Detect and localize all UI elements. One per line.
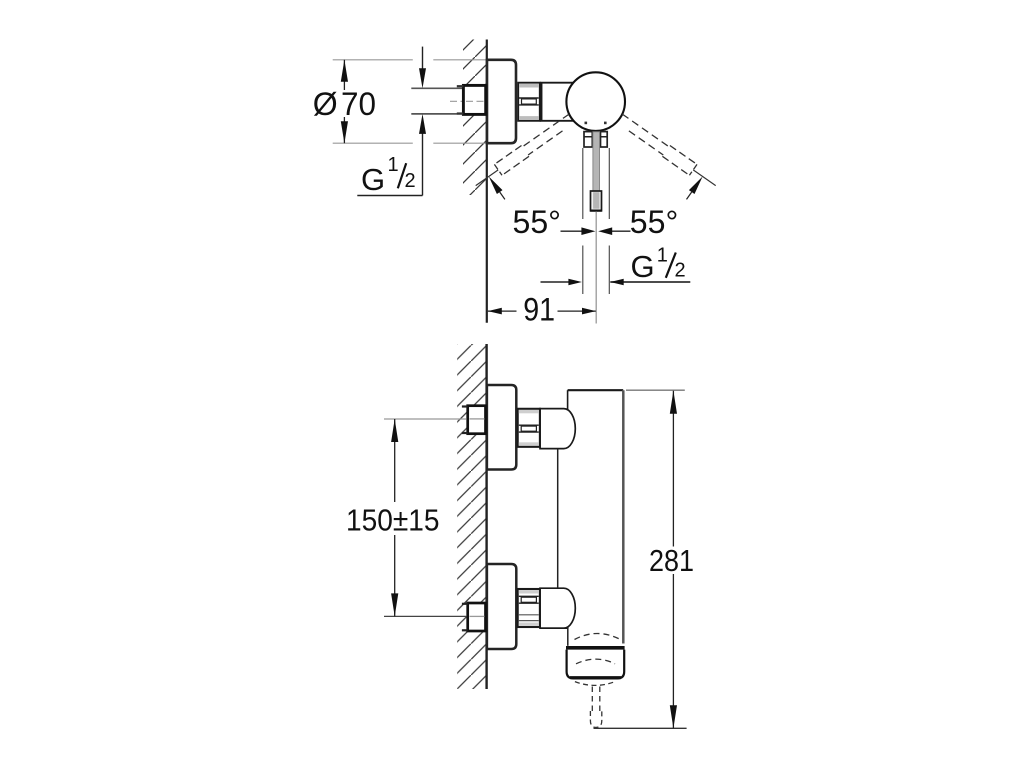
svg-text:70: 70 (341, 86, 376, 122)
svg-text:2: 2 (405, 170, 416, 192)
svg-text:G: G (361, 162, 385, 197)
svg-text:150±15: 150±15 (346, 502, 440, 537)
svg-text:2: 2 (675, 260, 686, 282)
svg-text:G: G (631, 249, 655, 284)
svg-text:1: 1 (657, 244, 668, 266)
svg-text:91: 91 (523, 292, 555, 328)
svg-text:281: 281 (649, 543, 694, 578)
svg-text:55°: 55° (513, 204, 562, 240)
svg-text:1: 1 (388, 154, 399, 176)
svg-text:55°: 55° (630, 204, 679, 240)
svg-text:Ø: Ø (313, 86, 338, 122)
